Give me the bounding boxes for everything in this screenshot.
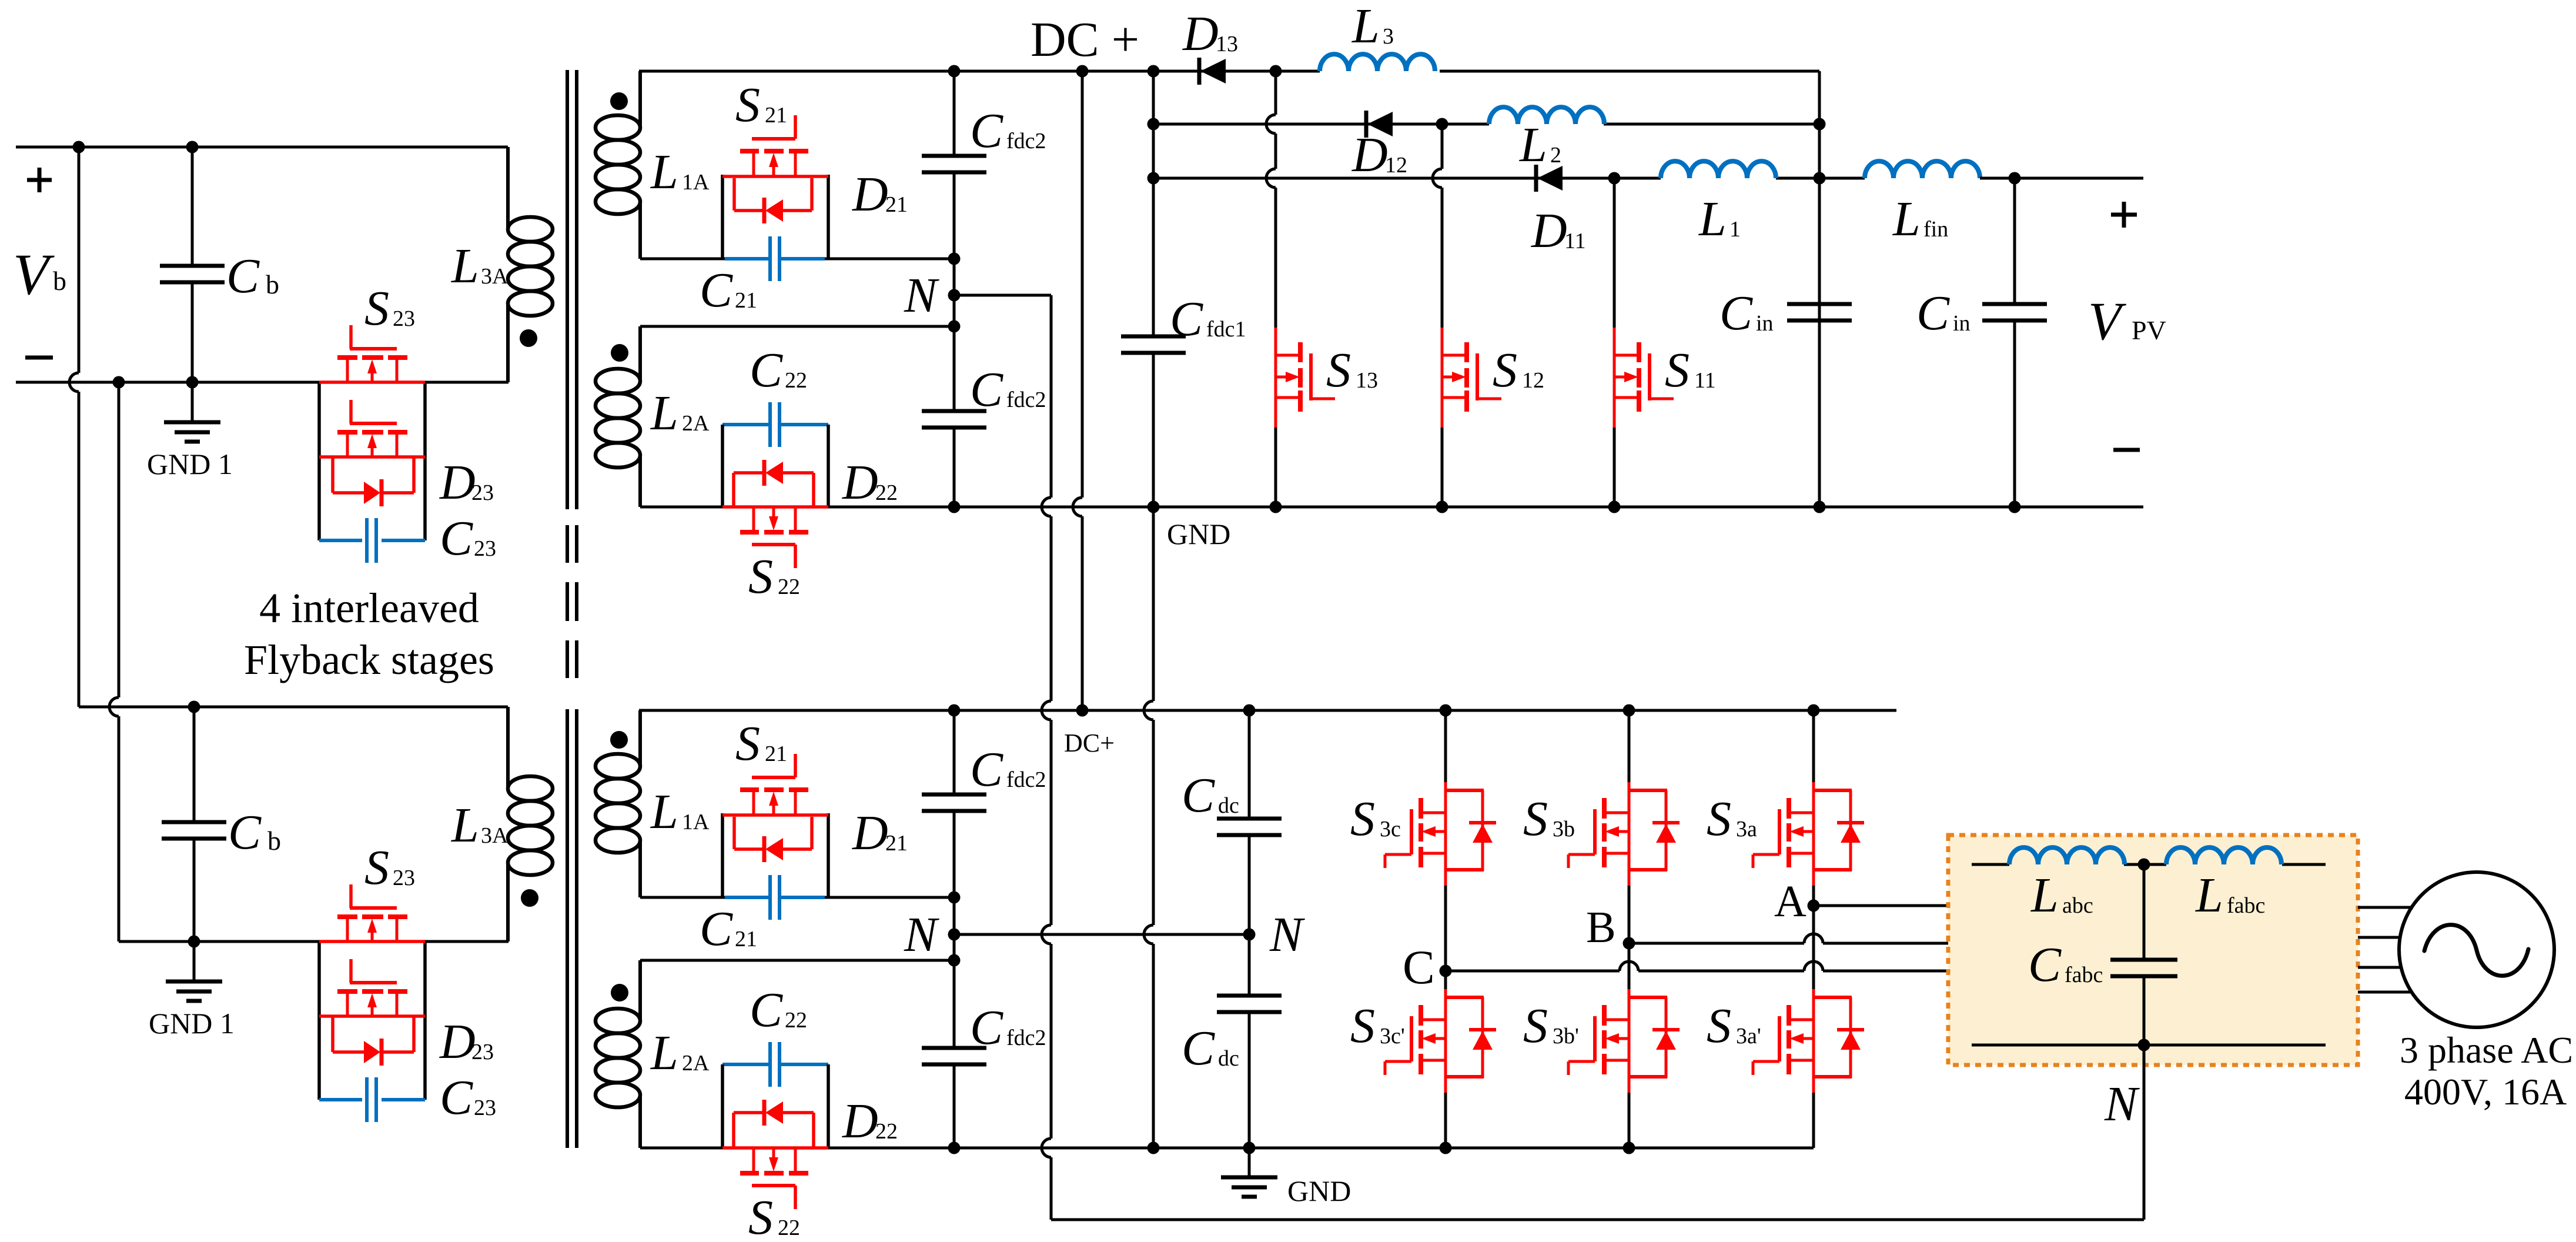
label S_3b — [1523, 792, 1575, 846]
capacitor C_fdc2 lower first — [922, 710, 986, 897]
svg-text:C: C — [1403, 940, 1435, 994]
svg-text:3c': 3c' — [1380, 1024, 1405, 1049]
svg-text:L: L — [451, 798, 479, 853]
node junction lower DC+ Cdc — [1243, 705, 1256, 717]
svg-text:V: V — [2088, 291, 2127, 351]
wire S12 leg — [1433, 124, 1442, 507]
wire lower flyback bottom rail — [119, 940, 508, 943]
AC source sine wave — [2424, 925, 2528, 976]
svg-text:3A: 3A — [481, 823, 508, 848]
wire phase B line — [1629, 934, 1948, 943]
capacitor C_b lower — [162, 707, 226, 941]
svg-text:D: D — [439, 455, 476, 510]
svg-text:23: 23 — [393, 866, 415, 890]
node junction top rail Cb — [186, 141, 199, 153]
label L2A lower — [650, 1026, 710, 1080]
inductor L1 (blue) — [1661, 161, 1776, 178]
svg-text:S: S — [1493, 343, 1517, 398]
label C22 lower — [750, 983, 807, 1037]
transistor S_3c — [1385, 782, 1496, 886]
node junction C21 line Cfdc2 — [948, 253, 961, 265]
svg-text:C: C — [440, 1070, 473, 1125]
svg-text:L: L — [1519, 118, 1547, 172]
wire GND rail lower — [640, 1147, 1814, 1150]
inductor L3A lower primary winding — [508, 707, 553, 941]
label S22 lower — [748, 1190, 800, 1242]
svg-text:D: D — [1531, 203, 1567, 258]
wire DC+ top rail — [639, 70, 1819, 73]
svg-text:b: b — [53, 266, 66, 296]
diode D21 upper antiparallel — [734, 178, 812, 223]
node junction GND rail Cin2 — [2009, 501, 2021, 513]
label C_b upper — [226, 249, 279, 303]
node junction lower DC+ Sb leg — [1623, 705, 1635, 717]
svg-text:3b': 3b' — [1553, 1024, 1579, 1049]
svg-text:S: S — [735, 78, 760, 132]
node junction lower GND Sc — [1440, 1142, 1452, 1154]
node N lower junction — [948, 929, 961, 941]
label GND 1 lower — [149, 1007, 235, 1040]
svg-text:C: C — [970, 742, 1003, 797]
wire lower flyback top rail — [79, 706, 508, 709]
svg-text:3: 3 — [1383, 24, 1394, 49]
wire filter bottom line — [1972, 1044, 2326, 1047]
svg-text:11: 11 — [1694, 368, 1716, 393]
svg-text:400V, 16A: 400V, 16A — [2404, 1071, 2567, 1113]
label S11 — [1665, 343, 1716, 398]
svg-text:13: 13 — [1216, 32, 1238, 56]
label L1A lower — [650, 784, 710, 839]
svg-text:4 interleaved: 4 interleaved — [259, 585, 479, 632]
transistor S23 upper (bidirectional switch, first MOSFET) — [319, 325, 425, 382]
phase dot L1A upper — [610, 92, 628, 110]
wire inverter leg A upper — [1812, 710, 1815, 906]
label DC + upper — [1031, 12, 1139, 67]
label C_b lower — [228, 805, 281, 860]
diode D11 — [1536, 165, 1563, 192]
svg-text:N: N — [904, 268, 939, 323]
capacitor C_dc upper — [1217, 710, 1282, 934]
transistor S_3b — [1568, 782, 1680, 886]
wire filter N stem — [2143, 1045, 2146, 1220]
node junction GND rail S13 — [1270, 501, 1282, 513]
label D21 upper — [852, 167, 908, 222]
svg-text:N: N — [1269, 907, 1305, 962]
svg-text:D: D — [439, 1014, 476, 1069]
phase dot L2A upper — [611, 344, 628, 362]
node junction Lfin Cin2 — [2009, 172, 2021, 185]
node junction lower GND Sb — [1623, 1142, 1635, 1154]
svg-text:3 phase AC: 3 phase AC — [2400, 1029, 2573, 1071]
svg-text:21: 21 — [885, 192, 908, 217]
svg-text:GND: GND — [1167, 517, 1230, 550]
label 400V 16A — [2404, 1071, 2567, 1113]
capacitor C22 lower (blue) — [770, 1042, 780, 1087]
svg-text:22: 22 — [778, 575, 800, 599]
wire DC+ bus vertical — [1073, 71, 1082, 710]
wire GND bus vertical (Cfdc1 leg) — [1144, 71, 1153, 1148]
svg-text:GND 1: GND 1 — [147, 448, 233, 480]
svg-text:L: L — [650, 145, 678, 199]
wire S13 leg — [1266, 71, 1276, 507]
svg-text:S: S — [735, 716, 760, 771]
diode D21 lower antiparallel — [734, 817, 812, 862]
wire V_b plus rail — [16, 146, 508, 149]
node junction lower top rail Cb — [188, 701, 200, 713]
wire C22 line lower (blue) — [722, 1063, 828, 1066]
svg-text:DC +: DC + — [1031, 12, 1139, 67]
svg-text:S: S — [748, 1190, 773, 1242]
svg-text:N: N — [2104, 1077, 2140, 1131]
svg-text:V: V — [13, 242, 55, 307]
capacitor C22 upper (blue) — [770, 402, 780, 447]
label C23 upper — [440, 511, 496, 566]
svg-text:22: 22 — [778, 1216, 800, 1240]
node junction lower bottom rail Cb — [188, 936, 200, 948]
svg-text:fabc: fabc — [2227, 893, 2265, 918]
label S23 upper — [364, 281, 415, 336]
wire vertical feed plus to lower flyback — [69, 147, 79, 707]
inductor L2A upper winding — [596, 326, 640, 507]
svg-text:D: D — [1351, 128, 1388, 182]
svg-text:21: 21 — [885, 831, 908, 856]
label L3 — [1351, 0, 1394, 54]
label C22 upper — [750, 343, 807, 398]
node C junction — [1440, 965, 1452, 977]
label S_3b' — [1523, 999, 1579, 1053]
svg-text:C: C — [750, 983, 783, 1037]
svg-text:C: C — [700, 902, 733, 956]
svg-text:L: L — [650, 1026, 678, 1080]
capacitor C_fdc2 upper first — [922, 71, 986, 259]
label S21 upper — [735, 78, 787, 132]
node junction lower DC+ Sc leg — [1440, 705, 1452, 717]
transistor S11 — [1614, 328, 1674, 428]
node junction GND rail Cin1 — [1814, 501, 1826, 513]
diode D13 — [1199, 58, 1226, 85]
wire phase A line — [1814, 904, 1948, 907]
node junction filter bottom — [2138, 1039, 2150, 1051]
label GND upper — [1167, 517, 1230, 550]
AC source circle — [2399, 872, 2554, 1027]
node junction rail3 D11-S11 — [1608, 172, 1621, 185]
wire cell verticals S23 lower — [319, 941, 425, 1100]
label 4 interleaved — [259, 585, 479, 632]
svg-text:S: S — [364, 840, 389, 895]
svg-text:23: 23 — [471, 1040, 494, 1064]
wire right vertical top rail corner down — [1818, 71, 1821, 507]
node junction rail2 at Cfdc1 — [1148, 118, 1160, 131]
transistor S_3b' — [1568, 989, 1680, 1093]
label S_3a — [1707, 792, 1757, 846]
svg-text:S: S — [748, 549, 773, 604]
label D12 — [1351, 128, 1407, 182]
svg-text:2A: 2A — [682, 411, 710, 436]
label C phase — [1403, 940, 1435, 994]
node junction rail2 D12-S12 — [1436, 118, 1448, 131]
svg-text:b: b — [267, 826, 281, 856]
wire L2A top rail lower — [640, 959, 954, 962]
label S22 upper — [748, 549, 800, 604]
svg-text:3a': 3a' — [1736, 1024, 1761, 1049]
svg-text:D: D — [852, 806, 888, 860]
diode D22 lower antiparallel — [734, 1100, 814, 1148]
svg-text:L: L — [650, 386, 678, 440]
node junction lower DC+ Cfdc2 — [948, 705, 961, 717]
label DC+ lower — [1064, 729, 1115, 757]
label D23 lower — [439, 1014, 494, 1069]
diode D22 upper antiparallel — [734, 460, 814, 507]
inductor L1A lower winding — [596, 710, 640, 897]
capacitor C_fdc1 — [1121, 336, 1186, 353]
label V_b — [13, 242, 66, 307]
capacitor C_b upper — [160, 147, 225, 382]
transistor S22 upper — [722, 507, 828, 568]
capacitor C_dc lower — [1217, 934, 1282, 1148]
label C_dc upper — [1182, 768, 1239, 823]
svg-text:fdc2: fdc2 — [1006, 388, 1046, 412]
svg-text:S: S — [1350, 999, 1375, 1053]
svg-text:fdc2: fdc2 — [1006, 767, 1046, 792]
label D22 upper — [842, 455, 898, 510]
wire AC stub 3 — [2358, 966, 2402, 969]
label S23 lower — [364, 840, 415, 895]
label D13 — [1182, 6, 1238, 61]
svg-text:3A: 3A — [481, 264, 508, 289]
label S_3c' — [1350, 999, 1405, 1053]
wire inverter leg A lower — [1812, 906, 1815, 1148]
node junction lower DC+ Sa leg — [1808, 705, 1820, 717]
wire N stub to bus upper — [954, 294, 1051, 297]
capacitor C21 upper (blue) — [725, 236, 825, 281]
svg-text:2A: 2A — [682, 1051, 710, 1076]
node junction rail2 right end — [1814, 118, 1826, 131]
wire bottom N return — [1051, 1218, 2144, 1221]
label Flyback stages — [244, 636, 494, 683]
svg-text:C: C — [1916, 286, 1950, 340]
svg-text:C: C — [440, 511, 473, 566]
svg-text:C: C — [2028, 937, 2062, 992]
wire N link lower — [953, 897, 956, 960]
svg-text:23: 23 — [474, 536, 496, 561]
transistor S_3a — [1753, 782, 1864, 886]
label D21 lower — [852, 806, 908, 860]
phase dot L3A lower — [521, 889, 538, 907]
wire vertical feed minus to lower flyback — [109, 382, 119, 941]
wire N bus vertical (upper N to bottom N wire) — [1042, 295, 1051, 1220]
svg-text:3c: 3c — [1380, 817, 1401, 842]
label N inverter — [1269, 907, 1305, 962]
svg-text:D: D — [1182, 6, 1219, 61]
capacitor C23 upper (blue) — [319, 518, 425, 563]
label GND 1 upper — [147, 448, 233, 480]
label 3 phase AC — [2400, 1029, 2573, 1071]
svg-text:L: L — [2195, 868, 2223, 923]
svg-text:3a: 3a — [1736, 817, 1757, 842]
filter box (orange dashed) — [1948, 835, 2358, 1065]
svg-text:S: S — [1326, 343, 1351, 398]
svg-text:S: S — [1350, 792, 1375, 846]
label C21 lower — [700, 902, 757, 956]
node junction lower GND Cdc — [1243, 1142, 1256, 1154]
label N lower — [904, 907, 939, 962]
node junction DC+ rail S13 leg — [1270, 65, 1282, 78]
label V_PV minus — [2113, 448, 2140, 452]
transistor S22 lower — [722, 1148, 828, 1209]
wire cell verticals S21 lower — [722, 813, 828, 897]
label L2 — [1519, 118, 1561, 172]
label D22 lower — [842, 1094, 898, 1148]
wire rail2 (D12 branch) — [1153, 123, 1819, 126]
wire S11 leg — [1613, 178, 1616, 507]
node junction GND rail S11 — [1608, 501, 1621, 513]
svg-text:12: 12 — [1522, 368, 1544, 393]
node junction minus rail Cb — [186, 376, 199, 389]
label C_in second — [1916, 286, 1971, 340]
capacitor C_fabc — [2110, 864, 2177, 1045]
svg-text:2: 2 — [1550, 143, 1561, 168]
svg-text:fin: fin — [1923, 217, 1948, 242]
transistor S13 — [1276, 328, 1335, 428]
label N upper — [904, 268, 939, 323]
inductor L3 (blue) — [1320, 54, 1435, 71]
svg-text:L: L — [451, 239, 479, 293]
label Lfin — [1892, 192, 1948, 246]
label L_fabc — [2195, 868, 2265, 923]
label V_PV — [2088, 291, 2166, 351]
node junction rail3 at Cfdc1 — [1148, 172, 1160, 185]
svg-text:dc: dc — [1218, 793, 1239, 818]
label L_abc — [2030, 868, 2093, 923]
svg-text:C: C — [226, 249, 260, 303]
svg-text:21: 21 — [735, 288, 757, 313]
wire cell verticals S22 upper — [722, 425, 828, 507]
inductor L1A upper winding — [596, 71, 640, 259]
label S_3a' — [1707, 999, 1761, 1053]
label L1A upper — [650, 145, 710, 199]
svg-text:C: C — [1170, 292, 1203, 346]
diode D23 upper antiparallel — [333, 457, 414, 506]
svg-text:22: 22 — [875, 480, 898, 505]
node junction lower GND bus — [1148, 1142, 1160, 1154]
svg-text:S: S — [1707, 792, 1731, 846]
capacitor C_in first — [1787, 304, 1852, 320]
svg-text:b: b — [266, 269, 279, 299]
wire phase C line — [1446, 961, 1948, 971]
transistor S12 — [1442, 328, 1501, 428]
svg-text:PV: PV — [2132, 315, 2166, 345]
svg-text:fdc2: fdc2 — [1006, 129, 1046, 153]
wire N junction link upper — [953, 259, 956, 326]
svg-text:C: C — [228, 805, 262, 860]
wire L2A top rail upper — [640, 325, 954, 328]
node N upper junction — [948, 289, 961, 302]
ground GND lower symbol — [1221, 1148, 1277, 1197]
wire cell verticals S23 upper — [319, 382, 425, 540]
svg-text:23: 23 — [471, 480, 494, 505]
label C_fdc2 upper second — [970, 362, 1046, 417]
wire AC stub 4 — [2358, 991, 2412, 994]
wire inverter leg B upper — [1628, 710, 1631, 943]
svg-text:11: 11 — [1564, 229, 1586, 253]
svg-text:S: S — [1523, 792, 1548, 846]
inductor L2 (blue) — [1489, 107, 1604, 124]
node junction lower GND Cfdc2 — [948, 1142, 961, 1154]
ground GND 1 lower symbol — [166, 941, 222, 1001]
label C_fdc2 lower first — [970, 742, 1046, 797]
svg-text:Flyback stages: Flyback stages — [244, 636, 494, 683]
capacitor C_fdc2 lower second — [922, 960, 986, 1148]
svg-text:23: 23 — [474, 1096, 496, 1120]
capacitor C23 lower (blue) — [319, 1077, 425, 1122]
svg-text:in: in — [1953, 311, 1971, 336]
wire rail3 to Vpv plus — [1980, 177, 2143, 180]
label D11 — [1531, 203, 1586, 258]
svg-text:L: L — [650, 784, 678, 839]
node junction DC+ rail bus — [1076, 65, 1089, 78]
node B junction — [1623, 937, 1635, 950]
svg-text:L: L — [1892, 192, 1921, 246]
wire rail3 (D11 branch) — [1153, 177, 1865, 180]
svg-text:S: S — [1707, 999, 1731, 1053]
svg-text:C: C — [1182, 1021, 1215, 1076]
svg-text:C: C — [970, 1000, 1003, 1055]
svg-text:C: C — [1182, 768, 1215, 823]
label C23 lower — [440, 1070, 496, 1125]
svg-text:22: 22 — [785, 1008, 807, 1033]
node junction L2A rail Cfdc2 — [948, 320, 961, 333]
phase dot L1A lower — [610, 731, 628, 749]
label C21 upper — [700, 263, 757, 318]
svg-text:S: S — [1523, 999, 1548, 1053]
svg-text:GND 1: GND 1 — [149, 1007, 235, 1040]
wire GND rail upper — [640, 506, 2143, 509]
wire V_b minus rail — [16, 381, 508, 384]
svg-text:L: L — [1698, 192, 1727, 246]
node junction GND rail S12 — [1436, 501, 1448, 513]
svg-text:fdc2: fdc2 — [1006, 1026, 1046, 1050]
transistor S23 lower second MOSFET — [319, 959, 425, 1016]
svg-text:C: C — [750, 343, 783, 398]
label S21 lower — [735, 716, 787, 771]
label A — [1774, 877, 1806, 926]
label C_in first — [1719, 286, 1774, 340]
diode D12 — [1366, 111, 1393, 138]
svg-text:in: in — [1756, 311, 1774, 336]
node junction filter top — [2138, 859, 2150, 871]
svg-text:B: B — [1586, 903, 1616, 952]
transistor S23 upper second MOSFET — [319, 400, 425, 457]
label B — [1586, 903, 1616, 952]
svg-text:22: 22 — [785, 368, 807, 393]
svg-text:22: 22 — [875, 1119, 898, 1144]
svg-text:1A: 1A — [682, 170, 710, 195]
svg-text:D: D — [852, 167, 888, 222]
label C_fdc1 — [1170, 292, 1246, 346]
node junction minus rail x202 — [113, 376, 125, 389]
label S13 — [1326, 343, 1378, 398]
phase dot L3A upper — [520, 329, 537, 347]
wire AC stub 2 — [2358, 936, 2401, 939]
label D23 upper — [439, 455, 494, 510]
node junction DC+ rail Cfdc1 — [1148, 65, 1160, 78]
label GND lower — [1287, 1174, 1351, 1207]
node junction rail3 right end — [1814, 172, 1826, 185]
label S12 — [1493, 343, 1544, 398]
svg-text:GND: GND — [1287, 1174, 1351, 1207]
svg-text:D: D — [842, 1094, 878, 1148]
wire N rail lower — [954, 933, 1249, 936]
